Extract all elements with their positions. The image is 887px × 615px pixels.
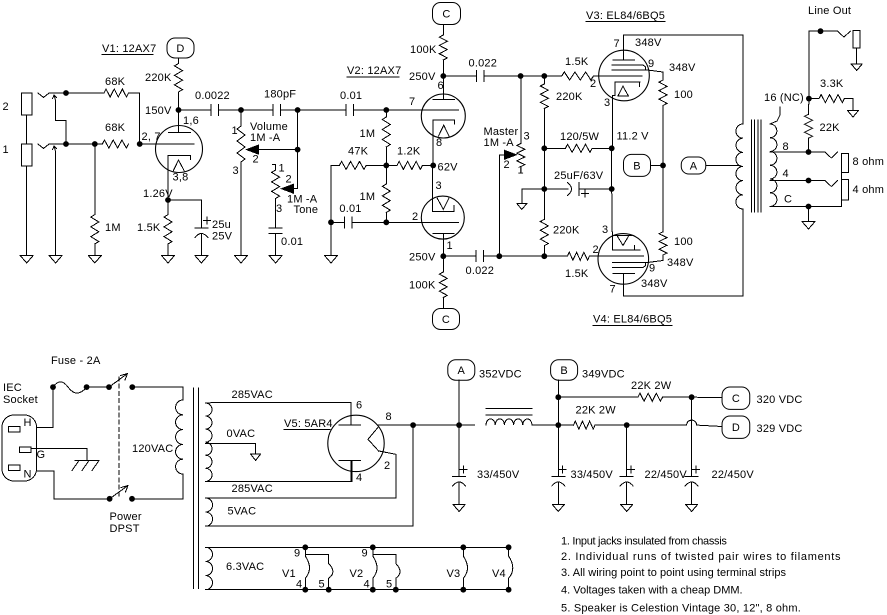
capacitor C 33/450V second [552, 425, 614, 486]
node fuse right [84, 384, 90, 390]
wire cathode to bypass cap [168, 200, 201, 228]
tap common C [770, 194, 809, 207]
svg-text:8 ohm: 8 ohm [853, 156, 885, 168]
wire 47K left drop [331, 165, 339, 255]
svg-text:1.5K: 1.5K [137, 222, 161, 234]
node A psu (352VDC) [448, 360, 522, 381]
wire cap1 ground lead [458, 483, 460, 505]
heater V1 pins 9/4/5 [282, 544, 333, 592]
svg-text:0.0022: 0.0022 [195, 90, 230, 102]
potentiometer Tone 1M-A [272, 163, 319, 217]
tube V1 12AX7 envelope [156, 126, 203, 173]
wire bias to V4 cathode [611, 189, 614, 250]
wire V5 pin8 output [378, 424, 459, 426]
resistor R 1.5K (V4 grid stopper) [565, 252, 589, 280]
resistor R 1M (PI bias upper) [360, 110, 391, 165]
wire IEC neutral [37, 471, 110, 499]
label 285VAC bottom [232, 483, 273, 495]
svg-text:150V: 150V [145, 105, 172, 117]
svg-text:1.26V: 1.26V [143, 188, 173, 200]
svg-text:9: 9 [294, 548, 300, 560]
svg-text:DPST: DPST [110, 523, 140, 535]
node first filter [456, 422, 462, 428]
tube V1 plate [169, 110, 199, 133]
node D psu (329VDC) [722, 416, 802, 438]
svg-text:68K: 68K [105, 122, 126, 134]
wire screen bus upper [662, 106, 664, 166]
ground line out jack [851, 64, 862, 71]
wire B bubble drop [557, 380, 559, 425]
wire to 180pF [241, 109, 273, 111]
svg-text:3.3K: 3.3K [820, 78, 844, 90]
svg-text:3: 3 [436, 180, 442, 192]
wire tone to cap [275, 199, 277, 229]
wire line out [809, 30, 838, 32]
svg-text:1.5K: 1.5K [565, 268, 589, 280]
node C psu (320VDC) [722, 387, 802, 409]
svg-text:D: D [732, 422, 740, 434]
svg-text:C: C [442, 9, 450, 21]
tube V2b cathode [432, 165, 454, 211]
resistor R 47K (NFB) [339, 146, 368, 170]
label 348V V4 screen [667, 257, 694, 269]
label 11.2V [617, 131, 650, 143]
svg-text:0.01: 0.01 [339, 203, 361, 215]
svg-text:2. Individual runs of twisted: 2. Individual runs of twisted pair wires… [561, 551, 841, 563]
resistor R 1M (PI bias lower) [360, 165, 391, 222]
svg-text:1,6: 1,6 [183, 115, 199, 127]
tube V3 heater chevron [618, 86, 628, 96]
transformer PT primary [176, 400, 183, 474]
jack 4 ohm [809, 180, 885, 200]
node screen branch tap [555, 394, 561, 400]
svg-text:3,8: 3,8 [173, 172, 189, 184]
node C lower (to PSU 320VDC) [433, 309, 460, 330]
svg-text:0.01: 0.01 [281, 236, 303, 248]
wire 180pF to node [280, 109, 297, 111]
svg-text:8: 8 [386, 411, 392, 423]
note 4 [561, 585, 743, 597]
transformer PT HV secondary [206, 403, 213, 481]
svg-text:22/450V: 22/450V [645, 469, 688, 481]
svg-text:220K: 220K [553, 225, 580, 237]
wire cap to lower grid node [352, 221, 386, 223]
svg-text:IEC: IEC [3, 382, 22, 394]
label pin3 V2b [436, 180, 442, 192]
node B psu (349VDC) [551, 360, 625, 381]
tube V1 title [102, 43, 156, 55]
wire to 220K tap upper [521, 75, 545, 77]
tube V2b plate [433, 234, 454, 257]
capacitor C 22/450V fourth [685, 466, 754, 486]
svg-text:1: 1 [3, 144, 9, 156]
resistor R 220K (V3 grid leak) [540, 76, 583, 109]
svg-text:1M: 1M [360, 191, 376, 203]
node fuse left [50, 384, 56, 390]
svg-text:4: 4 [364, 579, 370, 591]
svg-text:22K 2W: 22K 2W [631, 380, 672, 392]
svg-text:2: 2 [504, 159, 510, 171]
jack Line Out [838, 30, 861, 64]
svg-text:V3: V3 [447, 568, 461, 580]
node common [806, 204, 812, 210]
svg-text:352VDC: 352VDC [479, 369, 522, 381]
tube V3 screen g3 [612, 65, 646, 70]
capacitor C 0.01 tone [269, 228, 303, 248]
node bias 120/5W left [541, 145, 547, 151]
svg-text:250V: 250V [409, 71, 436, 83]
resistor R 220K (V1 plate load) [145, 64, 183, 111]
note 5 [561, 603, 801, 615]
node ch2 junction [63, 90, 69, 96]
svg-text:68K: 68K [105, 76, 126, 88]
resistor R 68K (ch1 grid stopper) [102, 122, 128, 148]
resistor R 1.5K (V3 grid stopper) [562, 56, 594, 80]
svg-text:Power: Power [110, 511, 142, 523]
tube V4 heater chevron [613, 236, 633, 246]
wire switch to PT bottom [132, 474, 183, 499]
svg-text:3: 3 [233, 165, 239, 177]
svg-text:G: G [37, 449, 46, 461]
svg-text:B: B [633, 160, 641, 172]
resistor R 22K 2W (lower) [558, 405, 626, 430]
node master wiper tap [496, 253, 502, 259]
svg-text:2: 2 [3, 101, 9, 113]
tube V1 heater chevron [173, 160, 184, 171]
tube V1 cathode [168, 155, 191, 200]
tube V3 plate [613, 35, 635, 60]
transformer OT core [752, 120, 762, 212]
wire master wiper down [498, 155, 500, 256]
svg-text:1.5K: 1.5K [565, 56, 589, 68]
svg-text:349VDC: 349VDC [582, 369, 625, 381]
wire IEC ground [31, 448, 87, 460]
wire J1 switch to ground [55, 152, 57, 256]
node V2a plate 250V [409, 71, 446, 83]
node V1 plate 150V [145, 105, 181, 117]
wire to C node [663, 396, 692, 398]
resistor R 220K (V4 grid leak) [540, 189, 580, 256]
capacitor C 0.0022 coupling [195, 90, 230, 116]
svg-text:A: A [458, 365, 466, 377]
node switch pole bottom [107, 496, 113, 502]
svg-text:V1: V1 [282, 568, 296, 580]
wire 220K to D [178, 58, 180, 64]
svg-text:1M: 1M [105, 222, 121, 234]
wire cap to master tap [484, 75, 521, 77]
svg-text:4: 4 [296, 579, 302, 591]
node B (to PSU 349VDC) [624, 154, 661, 176]
svg-text:H: H [24, 417, 32, 429]
wire HV top 285VAC [206, 403, 352, 426]
wire cap4 ground lead [691, 483, 693, 505]
node cathode 120/5W right [609, 145, 615, 151]
wire 6.3VAC top bus [206, 546, 509, 548]
svg-text:5: 5 [386, 579, 392, 591]
switch DPST link (dashed) [118, 377, 120, 497]
tube V3 title [586, 10, 665, 22]
svg-text:100K: 100K [409, 280, 436, 292]
tube V4 plate [610, 274, 635, 296]
ground bias network [517, 204, 527, 210]
potentiometer Volume 1M-A [232, 110, 288, 177]
svg-text:2: 2 [593, 244, 599, 256]
svg-text:100: 100 [674, 89, 693, 101]
transformer PT 5VAC winding [206, 498, 213, 526]
wire HV center tap 0VAC [206, 428, 256, 454]
ground 0VAC [251, 454, 261, 461]
node PI center [383, 163, 389, 169]
wire 1M drop [94, 144, 96, 215]
label 348V V3 screen [669, 62, 696, 74]
svg-text:22K: 22K [820, 122, 841, 134]
ground J1 switch [49, 256, 62, 264]
svg-text:B: B [560, 365, 568, 377]
node volume wiper junction [295, 147, 301, 153]
resistor R 120/5W (cathode bias) [544, 131, 611, 152]
svg-text:1: 1 [447, 240, 453, 252]
transformer OT secondary [770, 124, 777, 207]
wire 25u to ground [200, 235, 202, 256]
resistor R 22K (line out series) [805, 99, 841, 152]
tube V2a heater chevron [439, 125, 450, 136]
capacitor C 0.022 lower [466, 251, 495, 277]
node 220K tap lower [541, 253, 547, 259]
svg-text:250V: 250V [409, 252, 436, 264]
svg-text:120/5W: 120/5W [560, 131, 600, 143]
tube V3 cathode [604, 82, 640, 109]
svg-text:9: 9 [648, 58, 654, 70]
svg-text:11.2 V: 11.2 V [617, 131, 650, 143]
tube V4 title [593, 314, 672, 326]
resistor R 1.5K (V1 cathode) [137, 200, 172, 244]
wire to V2 input cap [298, 109, 346, 111]
svg-text:4: 4 [783, 168, 789, 180]
svg-text:0.022: 0.022 [466, 265, 495, 277]
heater V4 [492, 544, 513, 592]
note 2 [561, 551, 841, 563]
svg-text:3: 3 [602, 224, 608, 236]
tube V2b envelope [421, 196, 464, 239]
wire ch2 [66, 92, 104, 94]
tube V5 envelope [328, 415, 384, 471]
svg-text:V2: V2 [350, 568, 364, 580]
node master top tap [518, 73, 524, 79]
svg-text:3: 3 [276, 203, 282, 215]
svg-text:22/450V: 22/450V [712, 469, 755, 481]
potentiometer Master 1M-A [484, 126, 530, 177]
svg-text:5VAC: 5VAC [228, 506, 257, 518]
svg-text:25uF/63V: 25uF/63V [554, 170, 604, 182]
chassis ground mains [72, 461, 99, 471]
node ch1-sw junction [63, 141, 69, 147]
node cathode 25uF right [609, 186, 615, 192]
svg-text:C: C [732, 393, 740, 405]
tube V2a plate [433, 76, 455, 100]
label 285VAC top [232, 389, 273, 401]
svg-text:180pF: 180pF [264, 89, 296, 101]
wire 6.3VAC bottom bus [206, 589, 509, 591]
wire D feed with hop [627, 420, 722, 426]
wire cap tap [331, 221, 345, 223]
svg-text:8: 8 [436, 137, 442, 149]
svg-text:33/450V: 33/450V [477, 469, 520, 481]
switch blade bottom [110, 486, 128, 499]
tube V1 grid [140, 131, 194, 144]
choke L1 [459, 409, 558, 426]
tube V3 grid g1 [590, 76, 642, 90]
wire A bubble drop [458, 380, 460, 425]
tap 4 ohm [770, 168, 809, 181]
wire fuse to switch [87, 386, 109, 388]
svg-text:100K: 100K [410, 44, 437, 56]
svg-text:25V: 25V [212, 231, 233, 243]
wire J2 switch to ch1 [56, 101, 66, 145]
ground cap1 [453, 505, 465, 512]
ground 25u [195, 256, 208, 264]
svg-text:A: A [690, 161, 698, 173]
svg-text:33/450V: 33/450V [571, 469, 614, 481]
node switch throw bottom [129, 496, 135, 502]
ground 47K line [325, 256, 338, 264]
svg-text:N: N [24, 469, 32, 481]
svg-text:8: 8 [783, 141, 789, 153]
wire 3.3K to ground [844, 99, 853, 111]
capacitor C 0.01 V2 input [340, 90, 362, 116]
svg-text:3: 3 [604, 97, 610, 109]
tube V5 heater [368, 411, 392, 472]
svg-text:0.01: 0.01 [340, 90, 362, 102]
wiper tone [282, 184, 298, 193]
wire 5VAC top [206, 451, 397, 498]
wire jack sleeve chain [26, 115, 28, 256]
svg-text:1.2K: 1.2K [397, 146, 421, 158]
svg-text:5. Speaker is Celestion Vinta: 5. Speaker is Celestion Vintage 30, 12",… [561, 603, 801, 615]
node 3.3K junction [806, 96, 812, 102]
svg-text:2: 2 [384, 460, 390, 472]
resistor R 22K 2W (upper) [631, 380, 672, 401]
label 6.3VAC [226, 561, 264, 573]
label IEC Socket [3, 382, 38, 406]
node after volume [295, 107, 301, 113]
label Fuse - 2A [51, 355, 101, 367]
svg-text:1: 1 [279, 163, 285, 175]
svg-text:3. All wiring point to point: 3. All wiring point to point using termi… [561, 567, 787, 579]
svg-text:6: 6 [356, 400, 362, 412]
wire 47K to center [366, 164, 386, 166]
note 1 [561, 536, 727, 548]
svg-text:329 VDC: 329 VDC [757, 423, 803, 435]
node 0.01 tap [328, 219, 334, 225]
svg-text:5: 5 [319, 579, 325, 591]
node second filter B [555, 422, 561, 428]
svg-text:2: 2 [590, 78, 596, 90]
svg-text:6: 6 [438, 80, 444, 92]
label 348V V3 plate [635, 37, 662, 49]
capacitor C 25uF/63V cathode bypass [544, 170, 611, 197]
resistor R 1M (input grid leak) [91, 215, 121, 244]
wire V2b plate to cap [443, 255, 476, 257]
svg-text:1M -A: 1M -A [250, 132, 281, 144]
wire plate to C1 [179, 109, 212, 111]
svg-text:1: 1 [518, 165, 524, 177]
wire common ground [808, 207, 810, 222]
wire switch to PT [132, 387, 183, 400]
label Power DPST [110, 511, 142, 535]
svg-text:V1: 12AX7: V1: 12AX7 [102, 43, 156, 55]
svg-text:0VAC: 0VAC [227, 428, 256, 440]
wire screen branch [558, 396, 638, 398]
note 3 [561, 567, 787, 579]
tube V5 plate 6 [339, 400, 363, 426]
ground cap3 [621, 505, 633, 512]
label 5VAC [228, 506, 257, 518]
svg-text:C: C [442, 314, 450, 326]
node B junction [660, 163, 666, 169]
tap 8 ohm [770, 141, 809, 153]
node switch throw top [129, 384, 135, 390]
transformer PT 6.3VAC winding [206, 547, 213, 589]
svg-text:3: 3 [524, 131, 530, 143]
node A (to PSU 352VDC) [681, 157, 740, 174]
capacitor C 33/450V first [453, 425, 520, 486]
wire 1M to ground [94, 244, 96, 256]
wire volume to ground [240, 162, 242, 256]
svg-text:9: 9 [649, 263, 655, 275]
wire 68K to grid node [129, 93, 140, 144]
svg-text:Socket: Socket [3, 394, 38, 406]
fuse F1 2A [53, 382, 87, 393]
wire V3 cathode to bias [611, 98, 614, 190]
node 4ohm tap [806, 178, 812, 184]
node bias 25uF left [541, 186, 547, 192]
tube V5 title [284, 418, 333, 430]
wire C1 to volume [219, 109, 242, 111]
svg-text:7: 7 [610, 284, 616, 296]
transformer PT core [194, 388, 199, 589]
node V1 cathode 1.26V [143, 188, 173, 203]
svg-text:Fuse - 2A: Fuse - 2A [51, 355, 101, 367]
node V2 lower grid [383, 219, 389, 225]
label 348V V4 plate [641, 278, 668, 290]
svg-text:4 ohm: 4 ohm [853, 184, 885, 196]
node C upper (to PSU 320VDC) [433, 3, 461, 25]
node volume top [238, 107, 244, 113]
wire V2a plate to cap [443, 75, 476, 77]
wire C to V2 grid node [354, 109, 387, 111]
node V2b plate 250V [409, 252, 446, 264]
svg-text:V5: 5AR4: V5: 5AR4 [284, 418, 333, 430]
transformer OT primary [736, 124, 743, 209]
ground 3.3K [848, 111, 859, 118]
svg-text:V4: V4 [492, 568, 506, 580]
tube V4 envelope [598, 234, 649, 285]
ground jack sleeve [20, 256, 33, 264]
svg-text:348V: 348V [641, 278, 668, 290]
svg-text:V2: 12AX7: V2: 12AX7 [347, 65, 401, 77]
wire cap to master wiper tap [484, 255, 521, 257]
svg-text:25u: 25u [212, 219, 231, 231]
svg-text:7: 7 [614, 38, 620, 50]
svg-text:120VAC: 120VAC [132, 443, 173, 455]
wire screen bus lower [662, 165, 664, 231]
switch blade top [109, 374, 128, 388]
heater V2 pins 9/4/5 [350, 544, 401, 592]
connector IEC socket [2, 415, 45, 481]
wire bias bus upper [543, 109, 545, 149]
tube V4 grid g1 [589, 244, 643, 256]
capacitor C 0.022 upper [469, 58, 498, 82]
